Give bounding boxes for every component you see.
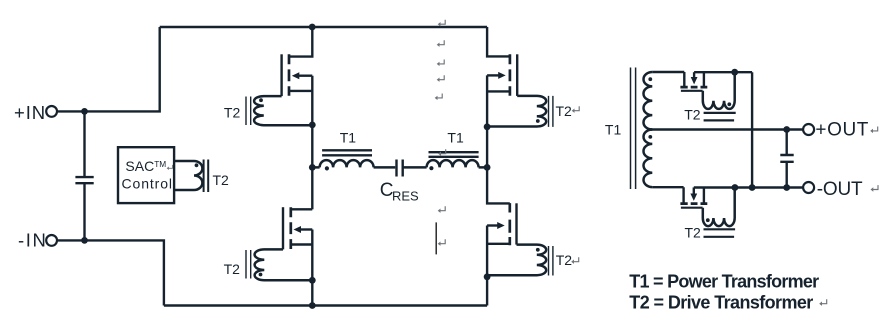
transistor Q3 source wire	[291, 243, 313, 245]
svg-text:T2: T2	[556, 252, 573, 268]
wire T1 top lead to Q5 drain	[652, 72, 684, 86]
transistor Q2 channel bars	[509, 54, 512, 96]
svg-text:RES: RES	[392, 189, 419, 204]
T2 sync top phasing dot	[727, 102, 731, 106]
T2 (Q1) phasing dot	[259, 98, 263, 102]
junction +IN / input cap	[81, 108, 88, 115]
svg-text:T1: T1	[340, 130, 357, 146]
node A junction (left bridge midpoint)	[309, 164, 316, 171]
junction +OUT rail / output cap	[783, 126, 790, 133]
junction -OUT rail / output cap	[783, 184, 790, 191]
transformer T1 secondary top half winding	[643, 72, 652, 130]
T1 right core bars	[429, 152, 479, 157]
T2 (Q3) core	[246, 250, 251, 279]
junction -OUT rail / vertical from Q5	[749, 184, 756, 191]
node +IN terminal	[46, 106, 57, 117]
T2 (Q3) phasing dot	[259, 273, 263, 277]
svg-text:T2: T2	[684, 107, 701, 123]
transistor Q2 body arrow	[487, 74, 500, 76]
wire -OUT rail	[694, 186, 803, 188]
T2 sync bottom core	[704, 229, 736, 237]
return mark column 3	[437, 59, 445, 66]
transistor Q1 body arrow	[298, 74, 313, 76]
svg-text:T2 = Drive Transformer: T2 = Drive Transformer	[629, 293, 813, 313]
T1 secondary top phasing dot	[648, 77, 652, 81]
wire Q5 common to output vertical	[694, 72, 752, 187]
svg-text:T2: T2	[213, 172, 230, 188]
wire bottom rail	[164, 304, 487, 306]
svg-text:SACTM: SACTM	[125, 158, 166, 174]
T1 right phasing dot	[429, 166, 433, 170]
transformer T2 sync bottom winding	[703, 188, 735, 227]
capacitor Cin plates	[75, 177, 93, 183]
svg-text:T2: T2	[224, 261, 241, 277]
transistor Q5 body arrow	[693, 72, 695, 79]
return mark mid bottom 2	[438, 239, 446, 246]
transistor Q1 channel bars	[288, 54, 291, 96]
transistor Q1 gate line (top-left)	[280, 54, 282, 96]
return mark after -OUT	[871, 185, 879, 192]
T2 control core	[204, 160, 209, 193]
wire T1 bottom lead to Q6 drain	[652, 187, 683, 202]
wire +IN to top rail corner	[57, 27, 160, 111]
transistor Q4 gate line	[515, 203, 517, 244]
SAC Control box U1	[118, 147, 174, 203]
svg-text:+IN: +IN	[14, 102, 46, 123]
transistor Q1 source wire	[289, 90, 312, 92]
junction Q3 source / T2 lead	[309, 277, 316, 284]
transistor Q4 source wire	[487, 243, 510, 245]
wire Q2 source down to node B	[486, 75, 488, 167]
inductor T1 primary right winding	[403, 160, 487, 167]
transistor Q4 body arrow	[487, 224, 499, 226]
transistor Q5 gate bar	[681, 90, 703, 92]
return mark column 4	[437, 75, 445, 82]
junction Q5 / T2 winding lead	[731, 69, 738, 76]
transformer T2 gate drive (Q4) winding	[487, 245, 546, 276]
wire T1 center tap to +OUT	[650, 128, 803, 130]
return mark column 2	[437, 40, 445, 47]
stray cursor line	[435, 222, 437, 254]
junction bottom rail / Q3 source	[309, 302, 316, 309]
transistor Q4 channel bars (bottom-right)	[508, 203, 511, 245]
transistor Q2 source wire	[487, 90, 510, 92]
return mark after T2 Q2	[572, 106, 580, 113]
transformer T1 output core	[631, 68, 636, 190]
transistor Q2 drain wire from top rail (top-right)	[487, 27, 510, 56]
transformer T2 gate drive (Q3) winding	[255, 249, 313, 280]
T1 left phasing dot	[325, 166, 329, 170]
capacitor Cout lead top	[786, 130, 788, 156]
transistor Q3 gate line (bottom-left)	[282, 207, 284, 249]
svg-text:T2: T2	[556, 103, 573, 119]
transformer T2 gate drive (Q2) winding	[487, 96, 546, 127]
svg-text:T1: T1	[447, 130, 464, 146]
transistor Q3 body arrow	[299, 228, 312, 230]
svg-text:-OUT: -OUT	[817, 179, 863, 200]
T2 control phasing dot	[195, 163, 199, 167]
T2 (Q4) phasing dot	[536, 248, 540, 252]
transistor Q6 body arrow	[693, 187, 695, 194]
T2 (Q2) core	[549, 96, 553, 127]
wire control box to T2 primary bottom	[175, 189, 195, 191]
junction Q4 source / T2 lead	[484, 273, 491, 280]
capacitor Cin lead top	[83, 111, 85, 177]
T2 sync top core	[704, 113, 736, 121]
transformer T2 sync top winding	[703, 72, 735, 109]
transistor Q5 channel bars (top sync)	[680, 86, 707, 89]
T2 sync bottom phasing dot	[706, 218, 710, 222]
transformer T2 gate drive (Q1) winding	[254, 96, 312, 125]
wire Q4 source down to bottom rail	[486, 226, 488, 306]
capacitor C_RES plates	[397, 160, 403, 177]
return mark column 1	[438, 20, 446, 27]
junction Q1 source / T2 lead	[309, 122, 316, 129]
return mark column 5	[435, 94, 443, 101]
junction -IN / input cap	[81, 237, 88, 244]
return mark after +OUT	[870, 127, 878, 134]
return mark in SAC box	[167, 165, 173, 170]
svg-text:T2: T2	[685, 224, 702, 240]
wire -IN to bottom rail corner	[57, 240, 164, 305]
svg-text:-IN: -IN	[18, 230, 47, 251]
return mark after legend	[819, 299, 827, 306]
transformer T1 secondary bottom half winding	[643, 130, 652, 188]
svg-text:T1 = Power Transformer: T1 = Power Transformer	[629, 272, 819, 292]
transistor Q3 drain wire	[291, 208, 313, 210]
wire top rail	[160, 26, 487, 28]
svg-text:Control: Control	[122, 175, 173, 191]
wire node B down to Q4 drain	[487, 167, 510, 203]
transistor Q2 gate line	[516, 54, 518, 96]
transistor Q1 drain wire	[289, 27, 312, 57]
return mark tank core	[438, 149, 446, 156]
return mark after T2 Q4	[571, 257, 579, 264]
wire Q3 source down to bottom rail	[311, 230, 313, 306]
capacitor Cout plates	[780, 155, 793, 162]
junction Q2 source / T2 lead	[484, 123, 491, 130]
wire node A down to Q3 drain	[311, 167, 313, 209]
transformer T2 control primary winding	[194, 161, 202, 190]
inductor T1 primary left winding	[312, 160, 395, 167]
return mark mid bottom 1	[438, 206, 446, 213]
wire control box to T2 primary top	[175, 160, 195, 162]
transistor Q5 source wire	[703, 72, 705, 86]
node -IN terminal	[46, 235, 57, 246]
wire Q1 source down to bridge node A	[311, 76, 313, 168]
node +OUT terminal	[803, 124, 814, 135]
capacitor Cin lead bottom	[83, 183, 85, 240]
transistor Q6 channel bars (bottom sync)	[680, 202, 707, 205]
capacitor Cout lead bottom	[786, 162, 788, 188]
transistor Q6 gate bar	[681, 207, 703, 209]
node B junction (right bridge midpoint)	[484, 164, 491, 171]
T2 (Q2) phasing dot	[536, 119, 540, 123]
junction Q6 / T2 winding lead	[732, 184, 739, 191]
node -OUT terminal	[803, 182, 814, 193]
T1 secondary bottom phasing dot	[648, 135, 652, 139]
svg-text:+OUT: +OUT	[815, 119, 869, 140]
T2 (Q4) core	[549, 246, 553, 276]
junction top rail / Q1 drain	[309, 24, 316, 31]
svg-text:T1: T1	[605, 122, 622, 138]
T2 (Q1) core	[246, 97, 251, 126]
transistor Q3 channel bars	[289, 207, 292, 249]
transistor Q6 source wire	[703, 187, 705, 202]
T1 left core bars	[322, 150, 372, 155]
svg-text:T2: T2	[224, 105, 241, 121]
